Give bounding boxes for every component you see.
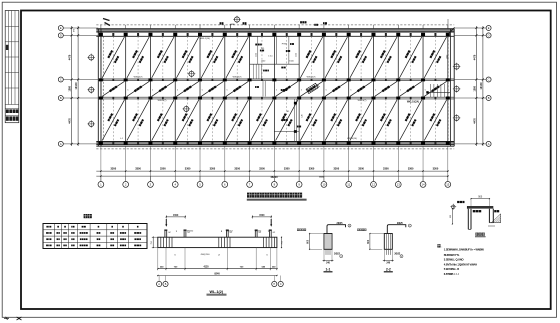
axis bubble 2 bottom [125,176,127,181]
svg-text:3300: 3300 [185,167,191,171]
stair area upper [250,63,300,65]
roof overhang dashed line bottom [96,148,454,150]
svg-text:C: C [280,283,282,286]
svg-text:A: A [488,142,490,146]
svg-text:15: 15 [446,182,450,186]
beam hanger stubs [164,231,166,238]
slab diagonal row1 bay 5 [201,37,223,78]
svg-text:6.BTMIB > / . /: 6.BTMIB > / . / [444,272,459,276]
svg-text:2-2: 2-2 [386,267,391,271]
slab diagonal row3 bay 6 [226,100,248,141]
secondary beam bay 11 [360,36,362,79]
svg-text:5: 5 [425,89,426,91]
left axis leader lines [63,27,98,29]
axis bubble 15 bottom [447,176,449,181]
axis bubble A right [486,141,491,146]
columns on axis 1 [99,33,103,36]
grid line axis 1 [100,36,102,141]
right-end stair flight [429,84,431,97]
beam left end dim [152,237,154,247]
secondary beam bay 3 [162,36,164,79]
beam lower dim line [158,268,277,270]
grid line axis 6 [224,36,226,141]
svg-text:5: 5 [276,89,277,91]
columns on axis 6 [223,33,227,36]
axis bubble 4 bottom [174,176,176,181]
svg-text:WKL10(2A): WKL10(2A) [407,101,419,104]
top wall band [96,29,454,32]
svg-text:1500: 1500 [259,215,265,217]
axis bubble 12 bottom [372,176,374,181]
svg-text:3: 3 [349,226,350,228]
detail target circles right [454,64,459,69]
secondary beam bay 12 [385,36,387,79]
left wall [97,29,99,146]
svg-text:3300: 3300 [433,167,439,171]
svg-text:11: 11 [347,182,350,186]
secondary beam bay 8 [286,36,288,79]
svg-text:3300: 3300 [259,167,265,171]
slab diagonal row2 bay 3 [152,81,174,96]
axis bubble E right [486,26,491,31]
svg-text:1500: 1500 [173,215,179,217]
grid line axis 9 [298,36,300,141]
svg-text:H: H [273,283,275,286]
secondary beam bay 10 [335,36,337,79]
columns on axis 15 [446,33,450,36]
corridor beam B [98,96,454,98]
secondary beam bay 5 [211,36,213,79]
slab diagonal row1 bay 2 [127,37,149,78]
slab diagonal row3 bay 14 [424,100,446,141]
columns on axis 12 [371,33,375,36]
columns on axis 2 [124,33,128,36]
slab diagonal row3 bay 5 [201,100,223,141]
svg-text:3300: 3300 [284,167,290,171]
svg-text:A: A [60,142,62,146]
svg-text:1-1: 1-1 [326,267,331,271]
stair area lower [293,99,295,142]
svg-text:3.SDIWLL Q.UNO: 3.SDIWLL Q.UNO [444,257,464,261]
svg-text:2Φ25: 2Φ25 [337,222,344,225]
beam schedule table [43,224,147,249]
bottom overall dimension line [96,175,448,177]
secondary beam bay 1 [112,36,114,79]
bottom dimension line 3300 row [96,170,448,172]
parapet hatch [491,214,500,223]
svg-text:4470: 4470 [69,54,72,60]
svg-text:4470: 4470 [473,118,476,124]
grid line axis 15 [447,36,449,141]
slab diagonal row3 bay 13 [399,100,421,141]
slab diagonal row1 bay 11 [350,37,372,78]
svg-text:870: 870 [74,29,76,32]
svg-text:12: 12 [372,182,376,186]
grid line axis 4 [174,36,176,141]
svg-text:3300: 3300 [383,167,389,171]
slab diagonal row2 bay 13 [400,81,422,96]
left dimension lines [71,26,73,146]
slab diagonal row3 bay 8 [276,100,298,141]
beam elevation outline [158,237,277,247]
svg-text:10: 10 [322,182,326,186]
svg-text:BURBWVYTL: BURBWVYTL [444,253,460,257]
svg-text:WKL3(7): WKL3(7) [158,100,167,102]
svg-text:3: 3 [409,226,410,228]
axis bubble D right [486,33,491,38]
svg-text:C: C [60,78,62,82]
plan title [247,193,252,198]
svg-text:5: 5 [227,89,228,91]
secondary beam bay 7 [261,36,263,79]
grid line axis 5 [199,36,201,141]
svg-text:4470: 4470 [473,54,476,60]
svg-text:D: D [488,33,490,37]
svg-text:1500: 1500 [473,85,476,91]
detail target circles left [89,55,94,60]
columns on axis 5 [198,33,202,36]
svg-text:14: 14 [421,182,425,186]
slab diagonal row2 bay 9 [300,81,322,96]
columns on axis 10 [322,33,326,36]
roof overhang dashed line top [96,24,454,26]
grid line axis 3 [149,36,151,141]
slab diagonal row2 bay 8 [276,81,298,96]
right axis leader lines [454,27,486,29]
axis bubble 7 bottom [249,176,251,181]
beam overall dim line [158,275,277,277]
svg-text:3300: 3300 [408,167,414,171]
slab diagonal row3 bay 9 [300,100,322,141]
slab diagonal row2 bay 11 [350,81,372,96]
svg-text:3300: 3300 [333,167,339,171]
slab diagonal row2 bay 10 [325,81,347,96]
svg-text:1.SEMNWH LOAWBUF 8+ = WNBW: 1.SEMNWH LOAWBUF 8+ = WNBW [444,248,485,252]
columns on axis 13 [396,33,400,36]
slab diagonal row3 bay 11 [350,100,372,141]
svg-text:WKL2(7): WKL2(7) [307,77,316,79]
svg-text:D: D [60,33,62,37]
svg-text:B: B [60,96,62,100]
grid line axis 11 [348,36,350,141]
slab diagonal row1 bay 4 [176,37,198,78]
svg-text:3300: 3300 [234,167,240,171]
slab diagonal row1 bay 12 [375,37,397,78]
grid line axis 8 [273,36,275,141]
grid line axis 10 [323,36,325,141]
secondary beam bay 2 [137,36,139,79]
svg-text:6: 6 [401,256,402,258]
beam schedule table title [84,214,88,218]
title block strip [5,11,19,123]
slab diagonal row3 bay 10 [325,100,347,141]
grid line axis 12 [372,36,374,141]
axis bubble 6 bottom [224,176,226,181]
axis bubble 13 bottom [397,176,399,181]
svg-text:4120: 4120 [203,266,209,269]
svg-text:WKL4(14): WKL4(14) [347,138,357,140]
svg-text:WKL2(7): WKL2(7) [134,77,143,79]
beam stirrup zones [160,237,162,247]
beam section cut 1 [165,219,167,226]
svg-text:Φ8@2: Φ8@2 [226,229,233,232]
fold marks bottom left [4,317,9,319]
parapet detail profile [467,206,493,209]
svg-text:5: 5 [152,89,153,91]
right wall [449,29,451,146]
right dimension lines [475,26,477,146]
columns on axis 14 [421,33,425,36]
secondary beam bay 6 [236,36,238,79]
svg-text:Φ8@200: Φ8@200 [201,253,211,256]
grid line axis 13 [397,36,399,141]
svg-text:Φ8@2: Φ8@2 [187,229,194,232]
axis bubble B right [486,96,491,101]
svg-text:5: 5 [350,89,351,91]
svg-text:2Φ22: 2Φ22 [394,253,401,256]
axis bubble B left [58,96,63,101]
svg-text:5: 5 [202,89,203,91]
svg-text:9240: 9240 [214,273,220,276]
svg-text:1125: 1125 [296,53,298,57]
svg-text:Φ8@2: Φ8@2 [255,229,262,232]
slab diagonal row3 bay 2 [127,100,149,141]
svg-text:6: 6 [341,256,342,258]
svg-text:3300: 3300 [135,167,141,171]
slab diagonal row1 bay 1 [102,37,124,78]
secondary beam bay 9 [311,36,313,79]
slab diagonal row3 bay 1 [102,100,124,141]
svg-text:5: 5 [400,89,401,91]
slab diagonal row1 bay 9 [300,37,322,78]
svg-text:10440: 10440 [75,82,78,90]
svg-text:4470: 4470 [69,118,72,124]
axis bubble 14 bottom [422,176,424,181]
axis bubble C left [58,77,63,82]
columns on axis 4 [173,33,177,36]
beam section cut 2 [270,219,272,226]
slab diagonal row2 bay 1 [102,81,124,96]
svg-text:1500: 1500 [69,85,72,91]
svg-text:3300: 3300 [110,167,116,171]
svg-text:5: 5 [103,89,104,91]
slab diagonal row2 bay 5 [201,81,223,96]
stair area hatched landing [306,82,320,93]
secondary beam bay 4 [187,36,189,79]
svg-text:WKL3(7): WKL3(7) [358,100,367,102]
slab diagonal row1 bay 3 [152,37,174,78]
axis bubble 5 bottom [199,176,201,181]
column detail 2-2 [384,234,392,250]
svg-text:E: E [60,26,62,30]
svg-text:WKL2(7): WKL2(7) [233,77,242,79]
axis bubble 9 bottom [298,176,300,181]
axis bubble 10 bottom [323,176,325,181]
detail target circles middle [189,71,194,76]
column detail 1-1 [324,234,332,250]
svg-text:5: 5 [177,89,178,91]
svg-text:WKL1(14): WKL1(14) [200,38,210,40]
secondary beam bay 14 [434,36,436,79]
axis bubble 1 bottom [100,176,102,181]
svg-text:1125: 1125 [256,53,258,57]
secondary beam bay 13 [410,36,412,79]
slab diagonal row2 bay 12 [375,81,397,96]
svg-text:E: E [488,26,490,30]
svg-text:5: 5 [127,89,128,91]
axis bubble 11 bottom [348,176,350,181]
svg-text:2Φ22: 2Φ22 [334,253,341,256]
notes block [437,244,440,247]
columns on axis 8 [272,33,276,36]
slab diagonal row3 bay 12 [375,100,397,141]
top edge annotation texts [220,22,224,24]
svg-text:5: 5 [375,89,376,91]
columns on axis 11 [347,33,351,36]
beam axis bubbles [158,276,160,282]
slab diagonal row1 bay 13 [399,37,421,78]
slab diagonal row3 bay 4 [176,100,198,141]
axis bubble D left [58,33,63,38]
svg-text:4.BVThUth ( JQWXUYI VWAH: 4.BVThUth ( JQWXUYI VWAH [444,262,477,266]
axis bubble 8 bottom [273,176,275,181]
slab diagonal row2 bay 2 [127,81,149,96]
slab diagonal row2 bay 4 [177,81,199,96]
axis bubble C right [486,77,491,82]
grid line axis 14 [422,36,424,141]
parapet detail title [475,233,478,236]
svg-text:3300: 3300 [160,167,166,171]
axis bubble E left [58,26,63,31]
slab diagonal row3 bay 7 [251,100,273,141]
grid line axis 7 [249,36,251,141]
detail target circle top [234,17,239,22]
svg-text:B: B [488,96,490,100]
slab diagonal row3 bay 3 [152,100,174,141]
svg-text:5.WVOBIJ-- B: 5.WVOBIJ-- B [444,267,459,271]
grid line axis 2 [125,36,127,141]
columns on axis 3 [148,33,152,36]
slab diagonal row1 bay 10 [325,37,347,78]
slab diagonal row2 bay 6 [226,81,248,96]
columns on axis 7 [248,33,252,36]
axis bubble A left [58,141,63,146]
svg-text:3300: 3300 [358,167,364,171]
corridor beam C [98,78,454,80]
axis bubble 3 bottom [149,176,151,181]
svg-text:PTB1: PTB1 [282,44,288,46]
svg-text:3300: 3300 [309,167,315,171]
svg-text:2Φ25: 2Φ25 [397,222,404,225]
svg-text:10440: 10440 [480,82,483,90]
slab diagonal row1 bay 6 [226,37,248,78]
bottom wall band [96,142,454,145]
svg-text:5: 5 [301,89,302,91]
parapet dims and labels [471,198,489,200]
svg-text:C: C [488,78,490,82]
slab diagonal row2 bay 14 [424,81,446,96]
svg-text:13: 13 [397,182,401,186]
slab diagonal row1 bay 14 [424,37,446,78]
svg-text:3300: 3300 [210,167,216,171]
columns on axis 9 [297,33,301,36]
svg-text:5: 5 [326,89,327,91]
svg-text:WL-1(2): WL-1(2) [210,290,224,294]
